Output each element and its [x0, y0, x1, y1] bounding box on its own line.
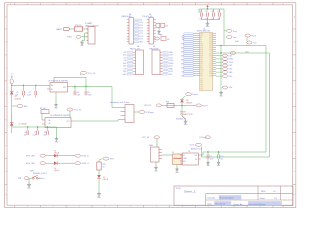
svg-text:4: 4: [79, 206, 80, 208]
svg-text:VP: VP: [200, 39, 202, 41]
svg-text:TXD0: TXD0: [229, 62, 233, 64]
svg-text:D2 1N4148: D2 1N4148: [19, 124, 27, 126]
svg-text:IO12: IO12: [200, 78, 203, 80]
wire 3V3 bus horizontal: [203, 151, 266, 153]
net label P-Prog: [224, 29, 237, 33]
svg-text:OUT: OUT: [66, 121, 69, 123]
svg-text:AMS1117-3.3: AMS1117-3.3: [191, 147, 202, 150]
svg-text:P-Player: P-Player: [146, 112, 154, 114]
op-amp U2B: [42, 114, 74, 127]
svg-text:IO0: IO0: [167, 39, 170, 41]
svg-text:11: 11: [259, 3, 261, 5]
svg-text:yuki.m@shinthings: yuki.m@shinthings: [249, 203, 266, 206]
svg-text:IO2: IO2: [124, 57, 127, 59]
svg-text:PRG3.0_DS: PRG3.0_DS: [143, 16, 154, 18]
svg-text:3V3: 3V3: [169, 74, 172, 76]
svg-text:BOOT: BOOT: [203, 105, 209, 107]
svg-text:IO21: IO21: [229, 55, 233, 57]
net label RxD: [235, 41, 239, 43]
net label IO18: [223, 86, 233, 89]
svg-text:VCC_3.3: VCC_3.3: [88, 73, 96, 75]
svg-text:Date:: Date:: [208, 203, 213, 206]
svg-text:LED-B: LED-B: [103, 179, 109, 181]
svg-text:BOOT0: BOOT0: [145, 105, 151, 107]
diode D9: [172, 152, 182, 165]
svg-text:SD2: SD2: [200, 65, 203, 67]
svg-text:3V3: 3V3: [123, 52, 126, 54]
wire: [112, 87, 121, 108]
svg-text:IO18: IO18: [229, 87, 233, 89]
ground: [54, 95, 58, 110]
svg-text:104: 104: [77, 94, 80, 96]
wire: [11, 84, 13, 86]
svg-text:IO22: IO22: [169, 57, 173, 59]
wire: [71, 86, 113, 87]
net label VCC chain: [99, 157, 114, 162]
wire: [81, 36, 88, 38]
capacitor C2: [27, 85, 36, 97]
capacitor C1: [15, 85, 24, 97]
net label LED2_G: [75, 162, 89, 165]
svg-text:IO33: IO33: [200, 49, 203, 51]
capacitor C8: [43, 127, 48, 136]
net label P-Power: [200, 136, 211, 139]
svg-text:3V3: 3V3: [200, 35, 203, 37]
svg-text:MIC-: MIC-: [24, 106, 28, 108]
svg-text:RXD: RXD: [209, 37, 212, 39]
svg-text:6: 6: [130, 206, 131, 208]
header J5 PRG3.0: [143, 14, 156, 44]
switch SW2: [176, 105, 187, 120]
LED D5: [54, 150, 60, 157]
wire: [70, 28, 74, 30]
wire: [74, 120, 121, 122]
resistor R10: [75, 25, 83, 31]
svg-text:R16: R16: [166, 101, 169, 103]
wire bottom rail: [12, 126, 57, 128]
svg-text:Headphone Jack 3.5mm: Headphone Jack 3.5mm: [110, 102, 130, 104]
svg-text:Sheet:: Sheet:: [260, 197, 266, 200]
IC U1 ESP32 module: [181, 28, 216, 90]
svg-text:REV:: REV:: [261, 191, 266, 193]
wire: [58, 155, 75, 157]
svg-text:R1 10K: R1 10K: [40, 108, 47, 110]
wire: [202, 20, 220, 22]
wire 5V bus horizontal: [202, 156, 270, 158]
net label UART: [56, 28, 70, 31]
audio jack J2: [110, 102, 134, 122]
svg-text:SVG_LED: SVG_LED: [26, 156, 35, 158]
svg-text:IN+: IN+: [49, 120, 52, 122]
net label P-Player: [134, 111, 154, 115]
net label VCC_IN: [142, 136, 160, 147]
ground: [27, 183, 32, 190]
svg-text:IO16: IO16: [209, 55, 212, 57]
diode D1: [10, 85, 21, 100]
net label MIC vertical: [10, 72, 13, 83]
svg-text:IO4: IO4: [124, 60, 127, 62]
header J6 PAD3.0_DS: [123, 46, 144, 76]
svg-text:IO14: IO14: [200, 57, 203, 59]
svg-text:10uF: 10uF: [210, 158, 214, 160]
svg-text:LED-R: LED-R: [54, 152, 60, 154]
svg-text:2022-03-13: 2022-03-13: [215, 204, 226, 206]
svg-text:IO35: IO35: [200, 45, 203, 47]
net label LED1_R: [75, 154, 89, 157]
svg-text:EN: EN: [200, 37, 202, 39]
svg-text:IO0: IO0: [210, 59, 212, 61]
svg-text:RXD0: RXD0: [169, 63, 173, 65]
svg-text:VCC_IN: VCC_IN: [142, 137, 150, 139]
title block: [174, 186, 293, 206]
svg-text:SW-SMD_4.5X4.5: SW-SMD_4.5X4.5: [33, 173, 47, 175]
svg-text:SW-SMD_4P: SW-SMD_4P: [176, 119, 187, 121]
svg-text:IO2: IO2: [210, 61, 212, 63]
svg-text:IO27: IO27: [200, 82, 203, 84]
connector P1 UART-USB: [85, 22, 99, 44]
svg-text:R10 1K: R10 1K: [75, 25, 82, 27]
svg-text:SD3: SD3: [209, 73, 212, 75]
junction: [207, 151, 219, 152]
net label VCC_3.3 U2B: [67, 108, 81, 118]
svg-text:IO5: IO5: [124, 68, 127, 70]
svg-text:VCC: VCC: [209, 33, 212, 35]
wire: [98, 170, 100, 175]
svg-text:IO27: IO27: [139, 28, 143, 30]
svg-text:UART: UART: [56, 28, 63, 31]
svg-text:10uF: 10uF: [27, 94, 31, 96]
junction: [11, 85, 37, 86]
power flag VCC: [206, 5, 209, 9]
svg-text:IO14: IO14: [200, 80, 203, 82]
svg-text:10: 10: [233, 3, 235, 5]
net label P-Flash: [245, 34, 256, 41]
svg-text:LED1_R: LED1_R: [82, 156, 90, 158]
svg-text:TXD1: TXD1: [67, 37, 73, 39]
ground: [184, 120, 188, 127]
regulator U3 AMS1117: [180, 147, 202, 165]
svg-text:C9: C9: [210, 156, 212, 158]
ground: [175, 165, 179, 174]
svg-text:SD1: SD1: [181, 75, 184, 77]
svg-text:CMD: CMD: [209, 71, 212, 73]
wire VCC to U1: [223, 9, 225, 46]
svg-text:2: 2: [27, 206, 28, 208]
wire U1 right down: [220, 45, 221, 79]
svg-text:CMD: CMD: [200, 69, 203, 71]
svg-text:CLK: CLK: [209, 69, 212, 71]
svg-text:C4: C4: [77, 92, 79, 94]
svg-text:RxD: RxD: [235, 41, 239, 43]
switch SW1: [29, 175, 45, 180]
svg-text:3V3: 3V3: [165, 25, 168, 27]
wire: [162, 154, 173, 156]
svg-text:IO33: IO33: [200, 88, 203, 90]
wire: [83, 28, 89, 30]
diode D4: [180, 99, 192, 105]
LED D7: [97, 175, 109, 181]
svg-text:VCC_3.3: VCC_3.3: [74, 110, 81, 112]
junction: [207, 8, 208, 9]
svg-text:TXD: TXD: [209, 35, 212, 37]
svg-text:IO21: IO21: [209, 45, 212, 47]
net label flags right of J4: [134, 19, 144, 43]
net label flags right of U1: [216, 54, 233, 74]
header J7 PAD-BLUE: [150, 46, 174, 76]
svg-text:9: 9: [208, 206, 209, 208]
ground: [206, 161, 210, 167]
svg-text:U3: U3: [188, 151, 190, 153]
sheet border frame: [5, 3, 296, 209]
svg-text:SD3: SD3: [200, 67, 203, 69]
svg-text:TxD: TxD: [245, 51, 249, 53]
svg-text:SD0: SD0: [200, 73, 203, 75]
svg-text:IO25: IO25: [200, 86, 203, 88]
connector J3 USB: [149, 145, 162, 162]
net label VCC5: [190, 143, 202, 157]
wire: [201, 152, 203, 155]
svg-text:TITLE:: TITLE:: [176, 188, 182, 190]
wire 3V3 bus vertical: [265, 46, 267, 153]
svg-text:Flash: Flash: [252, 36, 257, 38]
svg-text:SD0: SD0: [209, 67, 212, 69]
svg-text:GND: GND: [200, 61, 203, 63]
svg-text:RXD0: RXD0: [229, 59, 234, 61]
svg-text:IN: IN: [183, 155, 185, 157]
net label MIC-: [12, 105, 29, 108]
net label EN: [155, 35, 164, 40]
svg-text:2: 2: [27, 3, 28, 5]
svg-text:EN: EN: [183, 161, 185, 163]
svg-text:TXD0: TXD0: [169, 60, 173, 62]
svg-text:IO26: IO26: [139, 25, 143, 27]
svg-text:12: 12: [282, 206, 284, 208]
wire 5V bus vertical: [269, 53, 271, 157]
net label BOOT0: [145, 104, 162, 107]
svg-text:Link: Link: [233, 37, 236, 39]
svg-text:Company:: Company:: [207, 198, 217, 200]
svg-text:104: 104: [43, 134, 46, 136]
svg-text:7: 7: [156, 3, 157, 5]
svg-text:IO18: IO18: [123, 71, 127, 73]
header J4 PAD3.0: [122, 14, 134, 44]
svg-text:IO26: IO26: [200, 84, 203, 86]
svg-text:OUT: OUT: [194, 155, 197, 157]
svg-text:IO19: IO19: [169, 71, 173, 73]
ground: [55, 127, 59, 143]
svg-text:8: 8: [182, 206, 183, 208]
svg-text:IO34: IO34: [200, 43, 203, 45]
capacitor C7: [32, 127, 38, 136]
ground: [80, 41, 84, 48]
svg-text:SW: SW: [18, 178, 21, 180]
text SW1 info: [30, 171, 47, 175]
svg-text:IO21: IO21: [169, 66, 173, 68]
svg-text:1N4148: 1N4148: [186, 102, 192, 104]
wire: [58, 162, 75, 164]
ground: [206, 22, 210, 29]
svg-text:C5: C5: [88, 92, 90, 94]
svg-text:LED-G: LED-G: [54, 170, 60, 172]
net label P-Reset: [182, 93, 198, 100]
svg-text:11: 11: [259, 206, 261, 208]
svg-text:OUT: OUT: [63, 87, 66, 89]
svg-text:1: 1: [10, 3, 11, 5]
svg-text:D9: D9: [172, 152, 174, 154]
net label P-Link: [227, 36, 237, 40]
svg-text:IO22: IO22: [229, 65, 233, 67]
svg-text:C7: C7: [34, 132, 36, 134]
capacitor C6: [24, 127, 29, 136]
svg-text:Sheet_1: Sheet_1: [184, 190, 196, 194]
svg-text:IO5: IO5: [210, 51, 212, 53]
svg-text:IO13: IO13: [200, 63, 203, 65]
net label BOOT: [196, 104, 209, 108]
svg-text:SD1: SD1: [200, 75, 203, 77]
ground: [97, 192, 102, 199]
svg-text:VN: VN: [200, 41, 202, 43]
svg-text:IO27: IO27: [200, 55, 203, 57]
junction: [181, 105, 182, 106]
svg-text:U2 OPA2340-S-2(SOP8): U2 OPA2340-S-2(SOP8): [50, 114, 70, 117]
LED D6: [54, 161, 60, 172]
ground: [154, 162, 158, 172]
svg-text:IO26: IO26: [200, 53, 203, 55]
svg-text:Makerobot2020: Makerobot2020: [220, 197, 235, 200]
net label TXD1: [67, 35, 81, 38]
wire: [162, 104, 197, 106]
resistor R1: [40, 108, 49, 120]
svg-text:IN+: IN+: [51, 85, 54, 87]
svg-text:Prog: Prog: [233, 31, 237, 33]
capacitor C16: [161, 23, 168, 27]
wire: [98, 179, 100, 192]
ground: [219, 79, 223, 98]
svg-text:IO15: IO15: [123, 55, 127, 57]
ground: [157, 28, 161, 36]
resistor R16: [166, 101, 174, 107]
svg-text:C12: C12: [205, 11, 208, 13]
wire mic rail: [12, 84, 47, 86]
svg-text:IO23: IO23: [229, 69, 233, 71]
svg-text:C13: C13: [211, 11, 214, 13]
svg-text:SD1: SD1: [209, 65, 212, 67]
svg-text:3V3: 3V3: [139, 19, 142, 21]
svg-text:UART-USB-S-F4: UART-USB-S-F4: [85, 24, 99, 27]
capacitor C5: [85, 87, 92, 97]
svg-text:IO12: IO12: [139, 33, 143, 35]
junction: [27, 126, 48, 127]
svg-text:6: 6: [130, 3, 131, 5]
svg-text:IO18: IO18: [209, 49, 212, 51]
svg-text:SVG_LED: SVG_LED: [26, 163, 35, 165]
svg-text:IO4: IO4: [210, 57, 212, 59]
svg-text:9: 9: [208, 3, 209, 5]
svg-text:C11: C11: [199, 11, 202, 13]
svg-text:1: 1: [10, 206, 11, 208]
capacitors C11-C14 decoupling: [199, 9, 220, 20]
svg-text:1N4148: 1N4148: [15, 98, 21, 100]
ground: [217, 161, 221, 167]
svg-text:8: 8: [182, 3, 183, 5]
svg-text:IO17: IO17: [209, 53, 212, 55]
svg-text:Reset: Reset: [193, 93, 199, 96]
svg-text:C8: C8: [44, 132, 46, 134]
svg-text:IO15: IO15: [209, 63, 212, 65]
svg-text:IO17: IO17: [123, 66, 127, 68]
net label TxD flag: [247, 41, 258, 45]
diode D2: [10, 115, 27, 126]
svg-text:CLK: CLK: [200, 71, 203, 73]
wire: [29, 178, 41, 182]
svg-text:VCC5: VCC5: [190, 145, 195, 147]
svg-text:IO16: IO16: [123, 63, 127, 65]
svg-text:IO12: IO12: [200, 59, 203, 61]
svg-text:GND: GND: [200, 33, 203, 35]
svg-text:IO23: IO23: [209, 41, 212, 43]
wire: [11, 95, 13, 133]
text RESET PUSHBUTTON: [180, 112, 193, 116]
svg-text:IO22: IO22: [209, 39, 212, 41]
svg-text:10uF: 10uF: [32, 134, 36, 136]
svg-text:4: 4: [79, 3, 80, 5]
net label IO19: [216, 75, 232, 78]
svg-text:IO25: IO25: [139, 22, 143, 24]
net label VCC_3.3: [80, 71, 95, 75]
svg-text:IO14: IO14: [139, 30, 143, 32]
svg-text:IO25: IO25: [200, 51, 203, 53]
svg-text:10: 10: [233, 206, 235, 208]
svg-text:IO23: IO23: [169, 55, 173, 57]
wire feedback U2A: [54, 77, 86, 86]
capacitor C4: [74, 87, 80, 97]
svg-text:3: 3: [53, 206, 54, 208]
net label TxD: [230, 51, 249, 54]
svg-text:C6: C6: [24, 132, 26, 134]
svg-text:10uF: 10uF: [88, 94, 92, 96]
wire: [46, 155, 55, 157]
svg-text:5: 5: [104, 206, 105, 208]
svg-text:104: 104: [24, 134, 27, 136]
svg-text:GND: GND: [209, 43, 212, 45]
capacitor C15: [156, 23, 160, 27]
wire: [46, 162, 55, 164]
svg-text:104: 104: [220, 158, 223, 160]
svg-text:Reset: Reset: [40, 177, 45, 180]
wire TxD: [216, 52, 270, 54]
svg-text:C14: C14: [217, 11, 220, 13]
resistor R13: [161, 37, 170, 41]
svg-text:IO32: IO32: [200, 47, 203, 49]
wire RxD: [216, 45, 266, 47]
svg-text:SD2: SD2: [209, 75, 212, 77]
wire: [82, 33, 88, 41]
svg-text:3: 3: [53, 3, 54, 5]
op-amp U2A: [47, 80, 71, 95]
svg-text:IO13: IO13: [139, 36, 143, 38]
svg-text:LED2_G: LED2_G: [82, 163, 90, 165]
resistor R15: [97, 162, 106, 170]
svg-text:Drawn By:: Drawn By:: [234, 204, 244, 206]
capacitor C10: [218, 152, 224, 161]
svg-text:5: 5: [104, 3, 105, 5]
wire VCC rail: [199, 9, 224, 13]
svg-text:12: 12: [282, 3, 284, 5]
svg-text:IO19: IO19: [209, 47, 212, 49]
svg-text:C10: C10: [220, 156, 223, 158]
net label SVG_LED1: [26, 154, 46, 157]
net label SVG_LED2: [26, 162, 46, 165]
